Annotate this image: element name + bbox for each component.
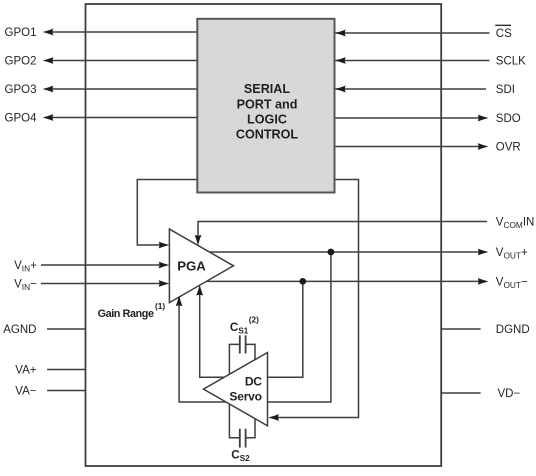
svg-text:SCLK: SCLK [496,56,526,68]
arrow serial feedback into PGA [159,242,170,249]
arrow GPO1 [43,29,54,36]
svg-text:VCOMIN: VCOMIN [496,217,535,230]
svg-text:OVR: OVR [496,142,521,154]
svg-text:VIN−: VIN− [14,279,37,292]
svg-text:DGND: DGND [496,324,530,336]
wire VA- stub [47,390,86,392]
arrow GPO3 [43,86,54,93]
svg-text:GPO3: GPO3 [5,84,37,96]
wire VD- stub [441,392,481,394]
chip outer border [86,4,442,466]
arrow VIN+ into PGA [159,262,170,269]
wire VOUT+ feedback down to servo and back to PGA [179,252,331,402]
arrow GPO2 [43,57,54,64]
svg-text:VD−: VD− [498,388,521,400]
wire VCOM IN with turn down into PGA [198,222,487,238]
wire OVR [335,146,481,148]
wire GPO2 [48,60,197,62]
wire SCLK [335,60,490,62]
capacitor CS1 plates [240,335,246,447]
wire CS [335,32,490,34]
serial port and logic control box [197,19,334,193]
svg-text:PORT and: PORT and [237,97,298,111]
arrow GPO4 [43,114,54,121]
svg-text:VOUT−: VOUT− [496,277,528,290]
arrow VCOM down into PGA [195,235,202,246]
wire VOUT- output line [205,280,480,282]
svg-text:GPO2: GPO2 [5,56,37,68]
svg-text:LOGIC: LOGIC [247,113,287,127]
wire VA+ stub [47,369,86,371]
arrow SCLK into box [335,57,346,64]
capacitor CS2 plates [239,429,241,448]
wire AGND stub [47,328,86,330]
wire VIN- [41,283,162,285]
svg-text:Gain Range: Gain Range [98,308,154,320]
wire GPO3 [48,88,197,90]
pin labels right [496,28,535,400]
svg-text:VA−: VA− [15,386,36,398]
svg-text:GPO1: GPO1 [5,27,37,39]
svg-text:CS2: CS2 [231,449,250,463]
svg-text:SDI: SDI [496,84,515,96]
pin labels left [3,27,37,398]
svg-text:VA+: VA+ [15,365,36,377]
svg-text:(1): (1) [155,301,165,311]
svg-text:CS: CS [496,28,512,40]
arrow CS into box [335,30,346,37]
arrow VOUT+ out [478,249,489,256]
wire VIN+ [41,264,162,266]
svg-text:DC: DC [245,374,262,388]
op-amp DC servo [204,353,268,426]
wire SDO [335,117,481,119]
svg-text:GPO4: GPO4 [5,113,38,125]
wire VOUT- feedback down to servo and back to PGA [200,281,303,377]
wire DGND stub [441,328,481,330]
wire serial-to-PGA feedback (left L) [137,180,197,246]
wire CS2 capacitor loop [229,398,255,438]
arrow SDO out [478,115,489,122]
svg-text:(2): (2) [249,315,259,325]
svg-text:CONTROL: CONTROL [236,128,299,142]
junction dot on VOUT+ [328,249,335,256]
wire serial-to-servo control (right L) [277,180,359,418]
arrow VOUT- out [478,278,489,285]
svg-text:SERIAL: SERIAL [244,82,290,96]
wire SDI [335,88,487,90]
wire VOUT+ output line [205,251,480,253]
arrow OVR out [478,143,489,150]
overline for CS [495,24,511,26]
arrow servo control into DC servo [268,414,279,421]
svg-text:VIN+: VIN+ [14,260,37,273]
wire GPO4 [48,117,197,119]
junction dot on VOUT- [299,278,306,285]
svg-text:AGND: AGND [3,324,36,336]
op-amp PGA U1 [169,229,233,303]
svg-text:CS1: CS1 [230,321,249,335]
svg-text:Servo: Servo [229,389,261,403]
arrow servo out up to PGA (left) [176,296,183,307]
wire GPO1 [41,32,490,438]
arrow servo out up to PGA (right) [196,285,203,296]
svg-text:PGA: PGA [177,258,206,273]
arrow VIN- into PGA [159,280,170,287]
arrow SDI into box [335,86,346,93]
svg-text:SDO: SDO [496,113,521,125]
wire CS1 capacitor loop [229,344,255,382]
svg-text:VOUT+: VOUT+ [496,247,528,260]
